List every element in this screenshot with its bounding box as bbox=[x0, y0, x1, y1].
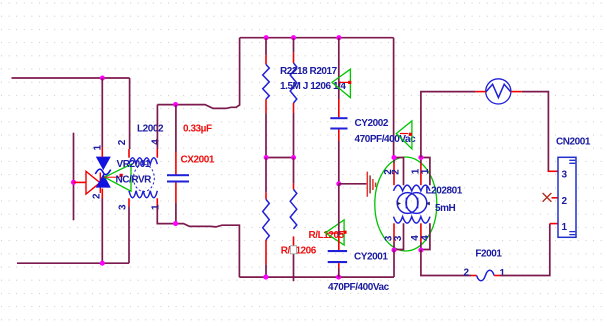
svg-text:2: 2 bbox=[391, 169, 402, 175]
fuse F2001 bbox=[471, 270, 500, 281]
pin 1 stub bbox=[156, 198, 158, 207]
wire right drop from top rail bbox=[393, 38, 395, 158]
arrow left bbox=[397, 202, 401, 206]
pin 4 stub bbox=[156, 149, 158, 158]
wire fuse circle to CN2001 pin 3 bbox=[522, 92, 549, 172]
svg-text:R2218 R2017: R2218 R2017 bbox=[280, 66, 338, 77]
wire up to L2002 pin 3 bbox=[128, 207, 130, 264]
winding top row bbox=[394, 185, 430, 191]
arrow right bbox=[426, 202, 430, 206]
probe arrow green at R/L1205 bbox=[325, 220, 346, 245]
wire bottom rail bbox=[239, 276, 394, 278]
capacitor CY2001 bbox=[328, 236, 347, 277]
probe arrow green at top rail bbox=[332, 69, 351, 97]
wire red to diode D bbox=[74, 181, 87, 183]
diode D red triangle bbox=[86, 171, 100, 194]
wire choke top-right up bbox=[421, 92, 476, 158]
node junction bottom rail CY2001 bbox=[336, 275, 341, 280]
lens bar right bbox=[417, 198, 419, 209]
resistor R lower-left bbox=[263, 158, 270, 278]
wire middle rail between resistors bbox=[266, 157, 294, 159]
svg-text:4: 4 bbox=[151, 139, 162, 145]
svg-text:2: 2 bbox=[117, 139, 128, 145]
pin bracket bottom-left bbox=[394, 223, 404, 249]
wire left drop to L2002 pin 2 bbox=[129, 78, 131, 149]
label R/L1206 bbox=[281, 246, 317, 257]
svg-text:4: 4 bbox=[420, 235, 431, 241]
svg-text:5mH: 5mH bbox=[435, 203, 456, 214]
lens bar left bbox=[405, 198, 407, 209]
wire L2002 pin1 down-right run bbox=[157, 207, 239, 277]
wire VR2001 to bottom-left rail bbox=[101, 199, 103, 264]
wire top-left horizontal bbox=[12, 77, 130, 79]
node junction CX2001 bottom bbox=[173, 221, 178, 226]
wire CX2001 top run with dip bbox=[157, 38, 239, 109]
node junction choke top-right bbox=[418, 155, 423, 160]
node junction rail CY2002 bbox=[336, 35, 341, 40]
winding top row bbox=[129, 158, 157, 165]
svg-text:CY2001: CY2001 bbox=[354, 252, 388, 263]
node junction rail R2017 bbox=[291, 35, 296, 40]
wire down to varistor VR2001 bbox=[101, 78, 103, 147]
node junction CX2001 top bbox=[173, 102, 178, 107]
svg-text:3: 3 bbox=[562, 170, 568, 181]
probe arrow green at CY2002 bbox=[396, 121, 412, 149]
core circle left bbox=[397, 193, 418, 214]
wire F2001 to CN2001 pin 1 bbox=[500, 224, 550, 276]
node junction rail R2218 bbox=[264, 35, 269, 40]
winding bottom row bbox=[394, 217, 430, 224]
svg-text:3: 3 bbox=[118, 204, 129, 210]
svg-text:CX2001: CX2001 bbox=[181, 154, 215, 165]
pin bracket top-right bbox=[421, 158, 430, 186]
transient suppressor VR2001 blue bowtie bbox=[95, 157, 111, 188]
wire L2002 pin4 up bbox=[156, 105, 158, 149]
svg-text:R/L1206: R/L1206 bbox=[281, 246, 317, 257]
inductor L2002 common-mode choke bbox=[117, 139, 162, 210]
node junction on stub bbox=[71, 180, 76, 185]
fuse circle element bbox=[476, 79, 522, 104]
inductor L2001 common-mode choke bbox=[375, 157, 437, 251]
node junction choke bottom-right bbox=[418, 248, 423, 253]
svg-text:2: 2 bbox=[464, 268, 470, 279]
svg-text:0.33µF: 0.33µF bbox=[183, 124, 212, 135]
svg-text:CY2002: CY2002 bbox=[355, 118, 389, 129]
pin 2 stub bbox=[128, 149, 130, 158]
resistor R2218 bbox=[263, 38, 270, 158]
capacitor CY2002 bbox=[330, 38, 347, 184]
svg-text:2: 2 bbox=[562, 196, 568, 207]
svg-text:1: 1 bbox=[151, 204, 162, 210]
resistor R lower-right bbox=[290, 158, 297, 282]
wire choke bottom-left to rail bbox=[393, 250, 395, 278]
core circle right bbox=[406, 193, 427, 214]
svg-text:3: 3 bbox=[393, 235, 404, 241]
svg-text:470PF/400Vac: 470PF/400Vac bbox=[328, 282, 390, 293]
wire bottom-left rail bbox=[17, 262, 129, 264]
pin 3 stub bbox=[128, 198, 130, 206]
wire top rail bbox=[240, 37, 394, 39]
pin bracket top-left bbox=[394, 158, 404, 186]
node junction choke bottom-left bbox=[391, 248, 396, 253]
svg-text:L202801: L202801 bbox=[426, 186, 463, 197]
wire floating stub left of VR2001 bbox=[73, 133, 75, 221]
node junction choke top-left bbox=[391, 155, 396, 160]
dashed circle core bbox=[134, 165, 155, 192]
wire CY2002 to CY2001 bbox=[338, 184, 340, 236]
node junction bottom rail R bbox=[263, 275, 268, 280]
node junction mid right bbox=[291, 155, 296, 160]
svg-text:CN2001: CN2001 bbox=[556, 137, 591, 148]
connector CN2001 bbox=[543, 157, 576, 237]
pin bracket bottom-right bbox=[421, 223, 430, 249]
node junction ground tap bbox=[336, 181, 341, 186]
svg-text:1: 1 bbox=[562, 222, 568, 233]
probe arrow green at VR2001 bbox=[105, 164, 132, 191]
svg-text:1: 1 bbox=[500, 268, 506, 279]
green circle bbox=[375, 157, 437, 251]
ground symbol bbox=[339, 172, 376, 197]
svg-text:L2002: L2002 bbox=[137, 124, 164, 135]
capacitor CX2001 bbox=[167, 105, 189, 224]
node junction bottom-left bbox=[100, 261, 105, 266]
svg-text:2: 2 bbox=[92, 193, 103, 199]
node junction on top-left wire bbox=[100, 76, 105, 81]
VR2001 pin stub red top bbox=[101, 147, 103, 157]
node junction mid left bbox=[264, 155, 269, 160]
wire choke bottom-right to fuse bbox=[421, 250, 471, 276]
VR2001 pin stub red bottom bbox=[101, 189, 103, 199]
resistor R2017 bbox=[290, 38, 297, 158]
svg-text:F2001: F2001 bbox=[475, 249, 502, 260]
winding bottom row bbox=[129, 191, 157, 198]
svg-text:1: 1 bbox=[420, 168, 431, 174]
